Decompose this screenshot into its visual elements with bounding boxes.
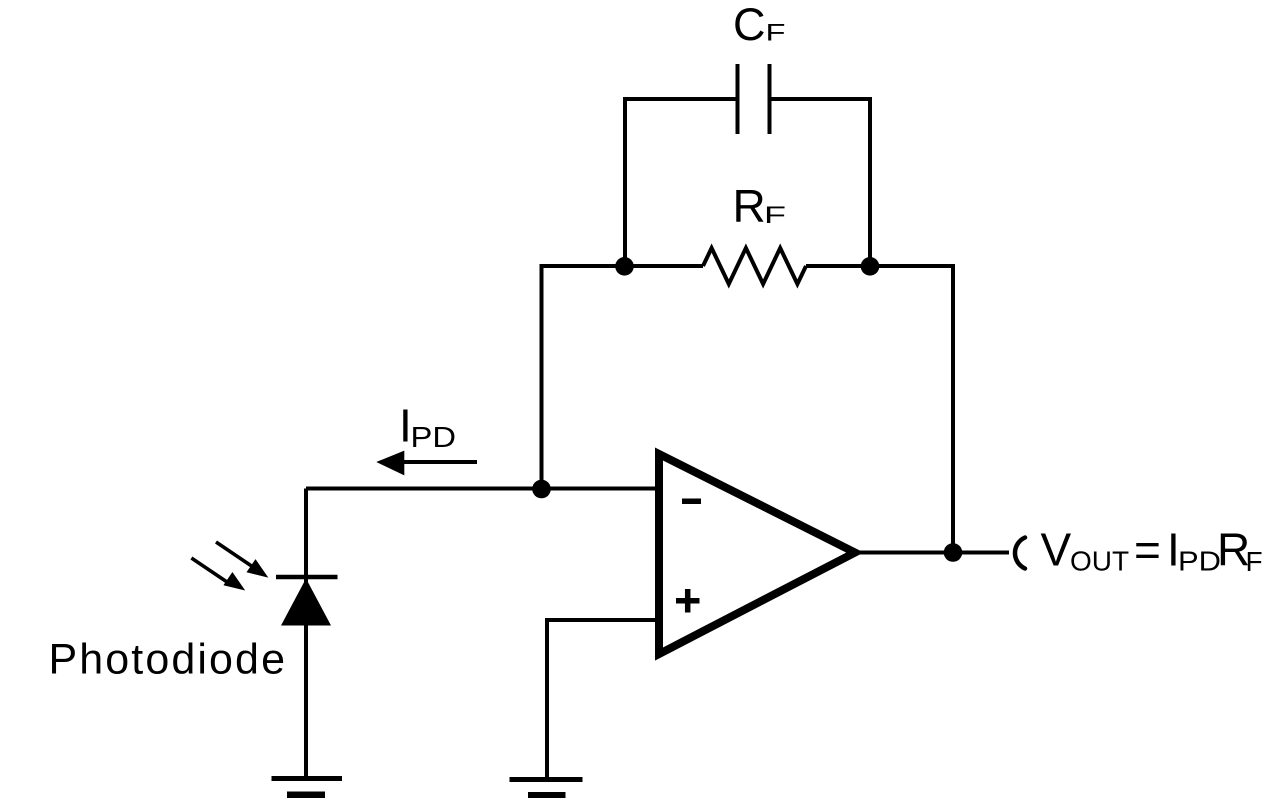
node A: junction dot (feedback left / capacitor) [615,257,634,276]
current arrow IPD (pointing left) [376,451,477,476]
svg-text:=: = [1134,524,1161,576]
label CF [733,0,786,50]
label IPD (current) [399,400,456,455]
node: inverting input junction dot [532,480,551,499]
node B: junction dot (feedback right / capacitor) [861,257,880,276]
wire: op-amp output to terminal [859,551,1009,555]
svg-text:OUT: OUT [1070,546,1129,577]
wire: inverting input (photodiode to op-amp - input) [306,487,659,491]
ground (op-amp non-inverting input) [510,780,583,796]
wire: capacitor branch left (up from node A, right to CF left plate) [625,99,736,268]
label RF [733,180,787,232]
wire: feedback row right (from resistor through node B, right and down to output node) [806,266,953,553]
wire: feedback row left (down from node A to inverting node, horizontal to resistor) [542,266,704,489]
op-amp non-inverting input plus sign [676,589,700,613]
wire: non-inverting input (ground to op-amp + input) [547,620,659,778]
output terminal arc [1015,538,1025,569]
resistor RF (zigzag) [703,248,806,284]
svg-text:F: F [1246,546,1263,577]
capacitor CF (two plates) [738,64,770,134]
node: output junction dot [944,543,963,562]
wire: capacitor branch right (from CF right plate, right and down to node B) [772,99,871,268]
photodiode D1: triangle (anode) [281,579,331,626]
svg-text:V: V [1041,524,1072,576]
light arrow 1 (upper) [216,542,268,578]
svg-text:C: C [733,0,766,50]
wire: photodiode branch vertical [304,489,308,777]
op-amp U1 (triangle) [659,454,855,654]
ground (photodiode) [272,779,343,796]
svg-text:Photodiode: Photodiode [49,636,288,684]
svg-text:PD: PD [1178,546,1221,577]
svg-text:PD: PD [411,422,457,454]
svg-text:F: F [766,20,786,47]
svg-text:R: R [733,180,766,232]
label VOUT = IPD RF [1041,524,1263,578]
op-amp inverting input minus sign [682,498,701,504]
svg-text:F: F [764,202,786,229]
light arrow 2 (lower) [191,558,245,591]
photodiode D1: cathode bar [276,575,338,580]
